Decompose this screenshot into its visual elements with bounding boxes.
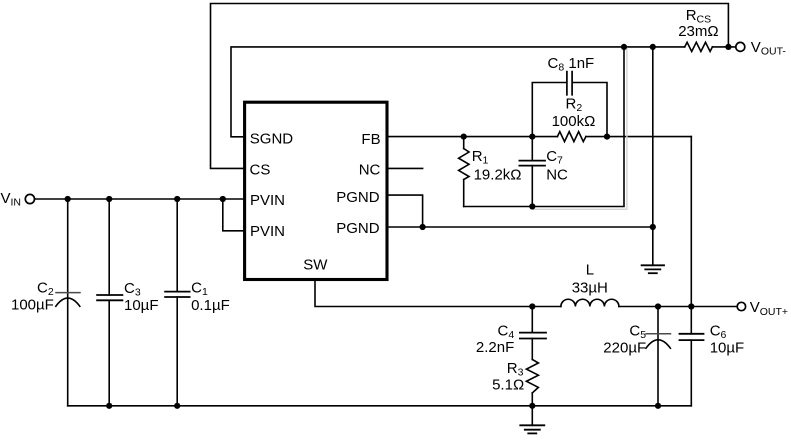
svg-text:PGND: PGND [336, 189, 380, 206]
wire SW to output rail [315, 280, 532, 307]
svg-text:10µF: 10µF [124, 297, 159, 314]
wire RCS left lead [653, 46, 685, 48]
ground (bottom) [520, 424, 544, 426]
wire FB-to-VOUT+ vertical [690, 137, 692, 307]
resistor R1 [463, 137, 465, 149]
svg-text:CS: CS [250, 161, 271, 178]
svg-text:5.1Ω: 5.1Ω [492, 377, 524, 394]
inductor L [561, 299, 619, 306]
capacitor C2 (polarized) [67, 199, 69, 406]
svg-text:100µF: 100µF [11, 297, 54, 314]
capacitor C5 (polarized) [657, 307, 659, 406]
svg-text:FB: FB [361, 131, 380, 148]
svg-text:SW: SW [303, 256, 328, 273]
svg-text:220µF: 220µF [603, 339, 646, 356]
svg-text:C8 1nF: C8 1nF [548, 55, 595, 74]
wire ground stem right [652, 227, 654, 265]
junction PGND dots [420, 224, 426, 230]
wire PVIN2 stub [223, 199, 244, 231]
junction bottom rail dots [106, 403, 112, 409]
capacitor C4 [531, 307, 533, 333]
svg-text:PGND: PGND [336, 220, 380, 237]
IC U1 box [245, 102, 387, 279]
resistor RCS [685, 42, 713, 51]
capacitor C7 [531, 137, 533, 161]
junction VOUT+ rail dots [529, 303, 535, 309]
wire R1/C7 bottom net to VOUT- rail [464, 47, 624, 207]
svg-text:33µH: 33µH [572, 279, 608, 296]
wire FB rail right segment [586, 136, 691, 138]
wire VIN rail [35, 198, 244, 200]
resistor R2 [557, 132, 586, 142]
svg-text:10µF: 10µF [710, 339, 745, 356]
junction FB rail dots [461, 134, 467, 140]
wire ghost (grey) [534, 48, 627, 209]
wire RCS right lead to VOUT- terminal [712, 46, 735, 48]
wire bottom ground rail [68, 405, 692, 407]
wire NC stub [387, 167, 423, 169]
junction VOUT- rail dots [621, 44, 627, 50]
svg-text:23mΩ: 23mΩ [678, 23, 718, 40]
junction VIN rail dots [65, 196, 71, 202]
capacitor C6 [690, 307, 692, 334]
svg-text:PVIN: PVIN [250, 192, 285, 209]
capacitor C3 [108, 199, 110, 295]
wire CS outer loop (CS pin to RCS right node) [211, 4, 729, 169]
wire VOUT+ rail left lead [532, 306, 561, 308]
wire VOUT- vertical (rail to PGND rail) [652, 47, 654, 227]
svg-text:NC: NC [546, 166, 568, 183]
wire PGND2 rail [387, 226, 653, 228]
wire VOUT+ rail right [619, 306, 737, 308]
wire SGND inner loop (SGND pin to VOUT- rail) [231, 47, 653, 137]
svg-text:L: L [586, 262, 594, 279]
ground (right, PGND) [642, 264, 664, 266]
wire FB rail left segment [387, 136, 557, 138]
svg-text:0.1µF: 0.1µF [191, 297, 230, 314]
terminal VOUT- [736, 42, 745, 51]
wire ground stem bottom [531, 406, 533, 426]
capacitor C8 loop [532, 83, 566, 137]
svg-text:SGND: SGND [250, 131, 294, 148]
terminal VOUT+ [737, 302, 745, 310]
svg-text:19.2kΩ: 19.2kΩ [474, 166, 522, 183]
terminal VIN [25, 194, 34, 203]
junction R1/C7 bottom dot [529, 203, 535, 209]
resistor R3 [531, 339, 533, 360]
svg-text:NC: NC [359, 161, 381, 178]
wire PGND1 to PGND2 [387, 195, 423, 227]
svg-text:100kΩ: 100kΩ [552, 113, 596, 130]
svg-text:2.2nF: 2.2nF [476, 339, 514, 356]
svg-text:PVIN: PVIN [250, 223, 285, 240]
capacitor C1 [176, 199, 178, 292]
